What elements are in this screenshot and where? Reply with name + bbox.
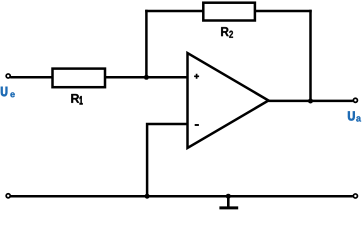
wire input to R1 and on to op-amp + input (10, 76, 187, 79)
terminal bottom left (6, 194, 10, 198)
terminal bottom right (353, 194, 357, 198)
net label Ue (1, 87, 7, 96)
op-amp inverting - pin marker (195, 124, 199, 126)
net label Ua (348, 112, 355, 121)
wire op-amp output to terminal (269, 100, 353, 103)
node output junction (feedback tap) (308, 99, 313, 104)
terminal input Ue (6, 74, 10, 78)
resistor R2 (203, 3, 255, 21)
wire bottom ground rail (10, 195, 353, 198)
wire op-amp - input left then down to ground rail (147, 124, 187, 196)
node A junction (+ input / feedback) (144, 75, 149, 80)
node junction - path to ground rail (145, 194, 150, 199)
resistor R1 value label (71, 94, 79, 103)
wire feedback left vertical from node A up to top rail (145, 10, 148, 78)
op-amp U1 (188, 53, 269, 148)
wire feedback right vertical down to output node (309, 10, 312, 101)
ground (227, 196, 230, 207)
terminal output Ua (353, 98, 357, 102)
op-amp non-inverting + pin marker (194, 74, 199, 79)
resistor R2 value label (221, 27, 229, 36)
resistor R1 (53, 69, 106, 88)
wire top rail through R2 (145, 10, 312, 13)
node junction ground symbol tap (226, 194, 231, 199)
